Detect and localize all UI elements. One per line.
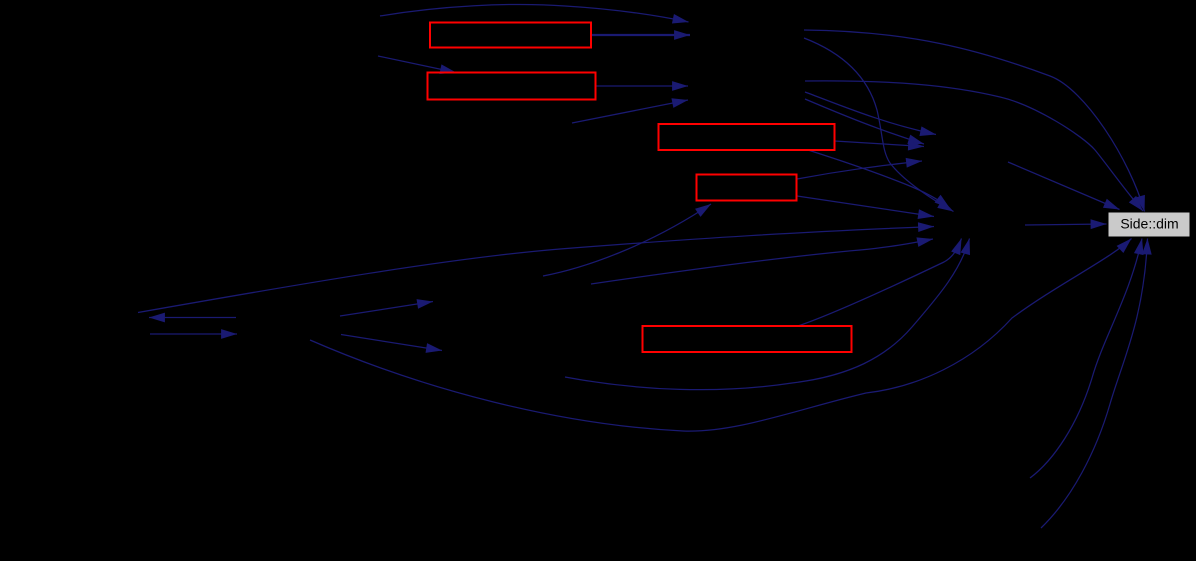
edge G to box4	[543, 204, 711, 276]
edge node E to Side::dim	[1025, 224, 1107, 225]
edge P1 to P2	[150, 333, 237, 335]
box4 red	[697, 175, 797, 201]
edge box4 to node E	[797, 196, 934, 217]
box5 red	[643, 326, 852, 352]
node Side::dim	[1109, 213, 1190, 237]
edge node A arc to Side::dim top	[804, 30, 1145, 212]
edge D2 curve to Side::dim bottom	[1041, 239, 1148, 529]
edge box3 right to node C	[835, 141, 925, 147]
edge box2 to node B	[597, 85, 689, 87]
box1 red	[430, 23, 591, 48]
edge box3 bottom to node E	[808, 150, 950, 209]
edge diag into box2	[378, 56, 456, 73]
box3 red	[659, 124, 835, 150]
edge P2 to G2	[340, 302, 433, 317]
svg-text:Side::dim: Side::dim	[1120, 216, 1178, 232]
edge D1 curve to Side::dim bottom	[1030, 239, 1142, 479]
box2 red	[428, 73, 596, 100]
edge top arc to node A	[380, 4, 689, 22]
edge node B to node C left	[805, 99, 924, 144]
edge P2 to P1	[149, 317, 236, 319]
edge to node B lower	[572, 100, 688, 123]
edge P1 long curve to node E	[138, 227, 934, 313]
edge node B to node C top	[805, 92, 936, 135]
edge P2 to H2	[341, 335, 442, 351]
edge P2 swoop to Side::dim bottom	[310, 239, 1132, 432]
edge box4 to node C bottom	[797, 161, 922, 179]
edge to node E third	[591, 239, 933, 284]
edge node A swoop to node E	[804, 38, 954, 212]
edge box5 top to node E bottom	[798, 239, 962, 327]
edge box1 to node A (thick)	[592, 34, 690, 36]
edge node C to Side::dim corner	[1008, 162, 1120, 210]
edge C2 curve to node E bottom	[565, 239, 970, 390]
edge node B arc to Side::dim top	[805, 81, 1143, 211]
